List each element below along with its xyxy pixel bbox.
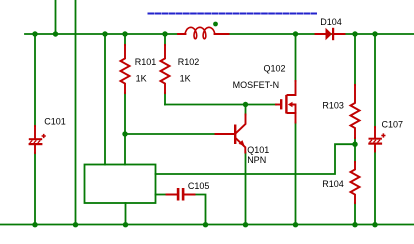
wire Q101 collector stub [245, 105, 247, 115]
wire vertical x105 to box [104, 34, 106, 165]
diode D104 leads [316, 33, 345, 35]
wire box upper right to R103/R104 node [156, 144, 356, 174]
mosfet Q102 source stub [288, 113, 296, 123]
mosfet Q102 arrow [288, 102, 293, 107]
resistor R102 [161, 45, 170, 93]
wire R101 top stub [124, 34, 126, 45]
transistor Q101 base bar [234, 125, 236, 145]
wire box to C105 [156, 194, 167, 196]
capacitor C107 lead top [374, 127, 376, 138]
capacitor C105 plate 1 [177, 188, 180, 201]
junction dot (375,34) [372, 31, 377, 36]
svg-text:MOSFET-N: MOSFET-N [233, 80, 280, 90]
junction dot (125,34) [122, 31, 127, 36]
junction dot (105,34) [102, 31, 107, 36]
mosfet Q102 gate bar [280, 99, 282, 109]
capacitor C107 plus [381, 133, 385, 137]
junction dot (206,224) [203, 222, 208, 227]
svg-text:C107: C107 [382, 120, 404, 130]
svg-text:R101: R101 [135, 57, 157, 67]
svg-text:R103: R103 [322, 100, 344, 110]
junction dot (355,34) [352, 31, 357, 36]
svg-text:1K: 1K [180, 73, 191, 83]
svg-text:C105: C105 [188, 181, 210, 191]
transistor Q101 collector [236, 115, 246, 134]
diode D104 triangle [326, 28, 333, 40]
resistor R103 [351, 85, 360, 138]
capacitor C101 lead bottom [34, 145, 36, 153]
capacitor C105 leads [167, 194, 195, 196]
capacitor C101 hatch [30, 140, 41, 143]
capacitor C107 bottom plate [368, 143, 382, 145]
wire C101 bottom to rail [34, 153, 36, 224]
svg-text:C101: C101 [44, 116, 66, 126]
mosfet Q102 drain lead [288, 81, 296, 95]
capacitor C101 top plate [29, 138, 42, 140]
resistor R101 [121, 45, 130, 93]
capacitor C105 plate 2 [182, 188, 185, 201]
capacitor C107 lead bottom [374, 145, 376, 152]
junction dot (245,224) [243, 222, 248, 227]
wire C105 to rail [195, 195, 206, 225]
svg-text:R104: R104 [322, 179, 344, 189]
junction dot (75,224) [73, 222, 78, 227]
svg-text:R102: R102 [178, 57, 200, 67]
wire C107 top [374, 34, 376, 127]
capacitor C101 lead top [34, 126, 36, 139]
wire top rail right [229, 33, 414, 35]
wire Q101 base horizontal [125, 133, 216, 135]
svg-text:Q101: Q101 [247, 145, 269, 155]
wire MOSFET source to rail [295, 123, 297, 225]
junction dot (165,34) [162, 31, 167, 36]
IC box U1 [85, 165, 156, 204]
junction dot (35,34) [32, 31, 37, 36]
svg-text:D104: D104 [320, 17, 342, 27]
svg-text:NPN: NPN [247, 155, 266, 165]
wire R103 bottom to node [354, 138, 356, 162]
wire vertical to C101 top [34, 34, 36, 126]
junction dot (125,224) [123, 222, 128, 227]
junction dot (375,224) [372, 222, 377, 227]
bus line (blue dashed) [149, 13, 317, 15]
wire vertical x55 up [55, 0, 57, 34]
wire MOSFET drain to top rail [295, 34, 297, 81]
junction dot (125,134) [122, 131, 127, 136]
resistor R104 [351, 162, 360, 203]
floating node dot above inductor [213, 22, 218, 27]
wire vertical x75 top to rail [75, 0, 77, 224]
junction dot (295,224) [293, 222, 298, 227]
transistor Q101 emitter [236, 139, 245, 153]
transistor Q101 base lead [216, 133, 235, 135]
wire R102 bottom [164, 93, 166, 105]
junction dot (355,144) [352, 142, 357, 147]
capacitor C107 top plate [369, 138, 382, 140]
wire top rail left [25, 33, 178, 35]
wire R101 bottom to box [124, 93, 126, 165]
inductor L coil [185, 27, 215, 39]
mosfet Q102 gate lead [276, 104, 280, 106]
wire C107 bottom to rail [374, 151, 376, 224]
junction dot (295,34) [293, 31, 298, 36]
mosfet Q102 bulk stub [291, 105, 296, 114]
junction dot (35,224) [32, 222, 37, 227]
junction dot (355,224) [352, 222, 357, 227]
diode D104 cathode bar [332, 28, 334, 40]
wire gate horizontal [165, 104, 276, 106]
capacitor C107 hatch [370, 140, 381, 143]
capacitor C101 bottom plate [29, 143, 43, 145]
wire Q101 emitter to rail [245, 153, 247, 225]
svg-text:1K: 1K [136, 73, 147, 83]
svg-text:Q102: Q102 [264, 63, 286, 73]
inductor L leads [178, 33, 229, 35]
junction dot gate node (245.5,104.5) [243, 102, 248, 107]
capacitor C101 plus [42, 134, 46, 138]
junction dot (55,34) [53, 31, 58, 36]
transistor Q101 emitter arrow [239, 140, 245, 146]
mosfet Q102 channel bar [285, 95, 287, 114]
wire box bottom pin to rail [125, 203, 127, 224]
wire R102 top stub [164, 34, 166, 45]
wire R103 top stub [354, 34, 356, 85]
wire R104 bottom to rail [354, 203, 356, 224]
wire bottom rail [0, 224, 414, 226]
